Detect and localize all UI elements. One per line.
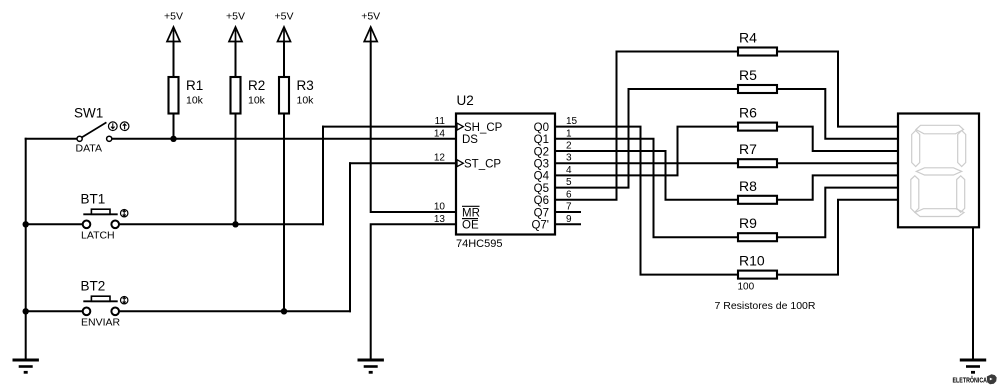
resistor R7 bbox=[738, 141, 777, 167]
resistor R6 bbox=[738, 105, 777, 131]
svg-text:ELETRÔNICA: ELETRÔNICA bbox=[953, 375, 988, 384]
IC U2 74HC595 body bbox=[456, 93, 555, 250]
svg-text:15: 15 bbox=[566, 116, 578, 127]
svg-text:R6: R6 bbox=[739, 105, 757, 121]
wire DATA net SW1 to DS pin bbox=[112, 138, 456, 140]
svg-text:+5V: +5V bbox=[226, 11, 245, 23]
svg-text:Q0: Q0 bbox=[534, 122, 549, 134]
svg-text:74HC595: 74HC595 bbox=[456, 238, 502, 250]
power +5V supply P3 bbox=[275, 11, 294, 42]
wire ENVIAR net BT2 to corner bbox=[119, 310, 350, 312]
svg-text:1: 1 bbox=[566, 128, 572, 139]
logo ELETRONICA bbox=[953, 374, 997, 384]
display segment G bbox=[916, 168, 961, 175]
wire left rail to BT1 bbox=[26, 223, 83, 225]
svg-text:R3: R3 bbox=[297, 78, 314, 93]
resistor R9 bbox=[738, 215, 777, 241]
svg-text:R8: R8 bbox=[739, 178, 757, 194]
power +5V supply P1 bbox=[164, 11, 183, 42]
svg-text:BT1: BT1 bbox=[81, 192, 106, 207]
display segment A bbox=[916, 125, 964, 134]
svg-text:R4: R4 bbox=[739, 30, 757, 46]
display segment E bbox=[911, 176, 919, 213]
resistor R3 bbox=[279, 77, 314, 114]
wire Q2 to R8 bbox=[555, 151, 738, 200]
svg-text:R9: R9 bbox=[739, 215, 757, 231]
wire +5V P4 to MR pin bbox=[371, 42, 456, 213]
ground right bbox=[960, 360, 986, 372]
wire R2 bottom to LATCH net bbox=[235, 114, 237, 225]
svg-text:MR: MR bbox=[462, 207, 480, 219]
wire R6 to display pin c bbox=[777, 127, 898, 151]
wire +5V to R1 top bbox=[173, 42, 175, 78]
svg-text:6: 6 bbox=[566, 189, 572, 200]
wire R9 to display pin f bbox=[777, 188, 898, 238]
svg-text:SH_CP: SH_CP bbox=[464, 122, 503, 134]
svg-text:R5: R5 bbox=[739, 67, 757, 83]
wire ENVIAR net to ST_CP pin bbox=[350, 162, 456, 164]
junction ENVIAR/R3 bbox=[281, 308, 287, 314]
svg-text:DS: DS bbox=[462, 134, 478, 146]
ground left bbox=[13, 360, 39, 372]
svg-text:11: 11 bbox=[435, 116, 446, 127]
svg-text:10: 10 bbox=[434, 202, 446, 213]
svg-text:7 Resistores de 100R: 7 Resistores de 100R bbox=[715, 300, 816, 312]
svg-text:+5V: +5V bbox=[164, 11, 183, 23]
svg-text:Q5: Q5 bbox=[534, 183, 549, 195]
wire R5 to display pin b bbox=[777, 89, 898, 139]
svg-text:+5V: +5V bbox=[275, 11, 294, 23]
wire ENVIAR net vertical riser bbox=[349, 163, 351, 311]
svg-text:2: 2 bbox=[566, 141, 572, 152]
svg-text:3: 3 bbox=[566, 153, 572, 164]
wire R10 to display pin g bbox=[777, 200, 898, 275]
svg-text:BT2: BT2 bbox=[81, 279, 106, 294]
junction rail/BT1 bbox=[23, 221, 29, 227]
svg-text:ST_CP: ST_CP bbox=[464, 159, 501, 171]
svg-text:Q6: Q6 bbox=[534, 195, 549, 207]
pushbutton BT2 bbox=[81, 279, 128, 329]
svg-text:Q1: Q1 bbox=[534, 134, 549, 146]
svg-text:Q7: Q7 bbox=[534, 207, 549, 219]
svg-text:9: 9 bbox=[566, 214, 572, 225]
svg-text:14: 14 bbox=[434, 128, 446, 139]
svg-text:ENVIAR: ENVIAR bbox=[81, 317, 121, 329]
wire display common to ground bbox=[972, 227, 974, 360]
display segment B bbox=[958, 131, 966, 167]
ground middle bbox=[358, 360, 384, 372]
svg-text:10k: 10k bbox=[186, 95, 204, 107]
resistor R8 bbox=[738, 178, 777, 204]
svg-text:U2: U2 bbox=[457, 93, 474, 108]
svg-text:R7: R7 bbox=[739, 141, 757, 157]
pushbutton BT1 bbox=[81, 192, 128, 242]
svg-text:7: 7 bbox=[566, 202, 572, 213]
switch SW1 bbox=[74, 106, 129, 155]
resistor R1 bbox=[169, 77, 204, 114]
display segment C bbox=[957, 176, 965, 213]
wire Q5 to R5 bbox=[555, 89, 738, 188]
svg-text:Q7': Q7' bbox=[531, 220, 549, 232]
power +5V supply P4 bbox=[361, 11, 380, 42]
wire +5V to R3 top bbox=[283, 42, 285, 78]
svg-text:+5V: +5V bbox=[361, 11, 380, 23]
wire left rail to SW1 bbox=[26, 138, 77, 140]
wire R8 to display pin e bbox=[777, 175, 898, 199]
display segment F bbox=[912, 131, 920, 167]
svg-text:Q3: Q3 bbox=[534, 159, 549, 171]
svg-text:DATA: DATA bbox=[76, 143, 102, 155]
junction LATCH/R2 bbox=[232, 221, 238, 227]
resistor R2 bbox=[231, 77, 266, 114]
wire R3 bottom to ENVIAR net bbox=[283, 114, 285, 312]
wire LATCH net BT1 to corner bbox=[119, 223, 323, 225]
resistor R10 with value 100 bbox=[738, 253, 778, 293]
wire R7 to display pin d bbox=[777, 162, 898, 164]
display segment D bbox=[915, 209, 964, 217]
junction rail/BT2 bbox=[23, 308, 29, 314]
pin ST_CP name and clock mark bbox=[457, 159, 501, 171]
svg-text:R10: R10 bbox=[739, 253, 765, 269]
wire Q7 stub bbox=[555, 211, 580, 213]
svg-text:4: 4 bbox=[566, 165, 572, 176]
power +5V supply P2 bbox=[226, 11, 245, 42]
wire +5V to R2 top bbox=[235, 42, 237, 78]
wire Q0 to R10 bbox=[555, 127, 738, 275]
wire R4 to display pin a bbox=[777, 52, 898, 127]
svg-text:Q4: Q4 bbox=[534, 171, 550, 183]
wire LATCH net to SH_CP pin bbox=[323, 126, 456, 128]
wire Q7' stub bbox=[555, 223, 580, 225]
wire Q6 to R4 bbox=[555, 52, 738, 200]
pin OE name with overline bbox=[462, 219, 479, 232]
svg-text:10k: 10k bbox=[297, 95, 315, 107]
resistor R4 bbox=[738, 30, 777, 56]
svg-text:R2: R2 bbox=[248, 78, 265, 93]
pin MR name with overline bbox=[462, 206, 480, 219]
svg-text:LATCH: LATCH bbox=[81, 230, 115, 242]
svg-text:OE: OE bbox=[462, 220, 479, 232]
svg-text:SW1: SW1 bbox=[74, 106, 103, 121]
pin SH_CP name and clock mark bbox=[457, 122, 503, 134]
wire left rail to ground bbox=[25, 139, 27, 360]
wire LATCH net vertical riser bbox=[322, 127, 324, 225]
svg-text:12: 12 bbox=[434, 153, 446, 164]
junction DATA/R1 bbox=[170, 136, 176, 142]
svg-text:R1: R1 bbox=[186, 78, 203, 93]
wire Q3 to R7 bbox=[555, 162, 738, 164]
resistor R5 bbox=[738, 67, 777, 93]
svg-text:13: 13 bbox=[434, 214, 446, 225]
wire R1 bottom to DATA net bbox=[173, 114, 175, 139]
wire OE pin to ground bbox=[371, 224, 456, 360]
svg-text:10k: 10k bbox=[248, 95, 266, 107]
wire left rail to BT2 bbox=[26, 310, 83, 312]
7-segment display body bbox=[898, 114, 979, 228]
svg-text:5: 5 bbox=[566, 177, 572, 188]
wire Q4 to R6 bbox=[555, 127, 738, 176]
wire Q1 to R9 bbox=[555, 139, 738, 237]
svg-text:Q2: Q2 bbox=[534, 146, 549, 158]
svg-text:100: 100 bbox=[738, 282, 755, 293]
